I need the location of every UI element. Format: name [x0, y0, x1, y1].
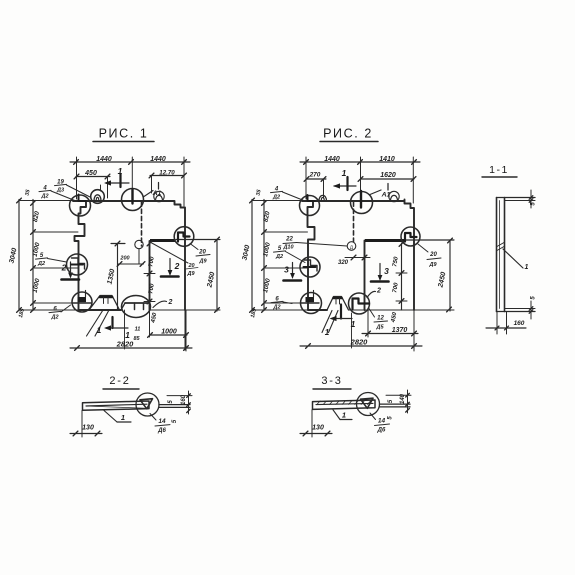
sec2-2 plate lines right	[159, 404, 190, 406]
sec3-3 label 14/Д6	[370, 413, 376, 420]
fig2 panel left edge with joggles	[308, 201, 315, 310]
svg-text:Д9: Д9	[428, 262, 437, 268]
fig1 dim 2450 vertical	[216, 240, 218, 312]
fig1 doorway left edge	[149, 241, 151, 310]
svg-text:130: 130	[82, 425, 94, 432]
svg-text:Д10: Д10	[282, 245, 293, 251]
fig2 callout circle bottom middle	[349, 293, 370, 314]
sec3-3 callout circle	[357, 393, 380, 416]
svg-text:2: 2	[168, 299, 173, 306]
fig2 callout circle doorway corner	[401, 227, 420, 246]
fig1 callout ellipse bottom middle	[122, 296, 151, 318]
fig2 callout circle left middle	[300, 257, 320, 277]
fig1 dim 200	[118, 263, 144, 265]
svg-text:1: 1	[525, 264, 529, 271]
fig1 leader 20/Д9 upper	[190, 244, 198, 250]
svg-text:160: 160	[181, 394, 187, 405]
svg-text:20: 20	[429, 252, 437, 258]
sec3-3 bar inner line	[316, 403, 373, 404]
svg-text:Д2: Д2	[37, 261, 45, 267]
svg-text:РИС. 2: РИС. 2	[323, 127, 373, 141]
fig1 doorway dim chain 700 700 450	[147, 241, 152, 246]
fig2 top dimension line 1440+1410	[300, 161, 420, 163]
sec2-2 triangle detail	[140, 399, 153, 409]
fig2 doorway left edge	[364, 241, 366, 311]
svg-text:Д2: Д2	[272, 194, 280, 200]
sec2-2 label 14/Д6	[150, 414, 156, 421]
fig2 callout circle bottom-left	[301, 293, 322, 314]
fig1 extension line sill left	[124, 310, 126, 349]
svg-text:Д2: Д2	[272, 304, 280, 310]
fig1 dim 1350 vertical	[117, 244, 119, 311]
fig2 leader 22/Д10	[297, 243, 348, 247]
fig2 dim 2820	[300, 345, 422, 347]
svg-text:450: 450	[84, 170, 97, 177]
sec1-1 break marks	[497, 243, 504, 247]
fig1 left tick connectors	[33, 231, 78, 233]
fig2 leader 20/Д9	[418, 244, 428, 252]
fig1 bottom trapezoid rib detail	[89, 296, 120, 311]
fig2 small loop right	[389, 191, 399, 201]
fig1 left inner dim chain	[32, 200, 34, 311]
svg-text:Д2: Д2	[40, 193, 48, 199]
fig2 panel bottom edge	[308, 309, 327, 311]
svg-text:1: 1	[97, 326, 102, 335]
svg-text:1440: 1440	[96, 156, 112, 163]
svg-text:1: 1	[125, 330, 130, 340]
svg-text:11: 11	[135, 327, 141, 333]
sec3-3 hatch	[317, 401, 320, 405]
sec1-1 dim 5 top	[530, 190, 532, 208]
sec2-2 bar outline	[83, 401, 150, 410]
sec1-1 vertical plate	[497, 198, 505, 312]
fig2 node circle with д	[347, 242, 356, 251]
svg-text:1: 1	[121, 413, 125, 422]
svg-text:85: 85	[133, 336, 140, 342]
fig1 label A1 with arrow	[144, 191, 153, 197]
fig1 callout circle bottom-left	[72, 292, 92, 312]
svg-text:320: 320	[338, 260, 349, 266]
fig2 callout circle top-left corner	[300, 196, 320, 216]
svg-text:22: 22	[285, 237, 293, 243]
sec1-1 dim 5 bottom	[530, 301, 532, 319]
sec1-1 leader 1	[503, 249, 523, 268]
svg-text:Д3: Д3	[56, 187, 64, 193]
fig1 dim 450	[76, 176, 110, 178]
fig2 label 12/Д5	[369, 309, 375, 318]
svg-text:Д2: Д2	[50, 314, 58, 320]
fig1 small loop right	[154, 191, 164, 201]
svg-text:2820: 2820	[350, 337, 369, 346]
svg-text:Д6: Д6	[377, 428, 386, 434]
fig2 left inner dim chain	[263, 200, 265, 311]
fig1 dim 1270	[150, 175, 184, 177]
fig2 dim 2450 vertical	[449, 240, 451, 311]
fig2 label A1 with arrow	[370, 190, 381, 195]
sec1-1 top flange	[497, 197, 536, 199]
sec2-2 bar inner line	[86, 404, 147, 406]
svg-text:1: 1	[351, 319, 356, 329]
svg-text:2: 2	[174, 261, 180, 271]
fig1 leader 20/Д9 lower	[150, 242, 188, 263]
svg-text:Д9: Д9	[198, 259, 207, 265]
svg-text:270: 270	[309, 172, 321, 179]
sec3-3 plate lines right	[380, 403, 411, 405]
svg-text:3-3: 3-3	[321, 375, 342, 387]
fig2 extension line lintel level	[405, 239, 454, 241]
svg-text:1: 1	[342, 411, 346, 420]
svg-text:1-1: 1-1	[489, 164, 509, 176]
fig1 callout circle doorway corner	[174, 227, 194, 247]
svg-text:Д2: Д2	[275, 254, 283, 260]
svg-text:РИС. 1: РИС. 1	[99, 127, 149, 141]
sec2-2 right dims	[167, 395, 192, 397]
fig1 panel outline	[73, 201, 185, 310]
svg-text:200: 200	[119, 256, 129, 262]
svg-text:3: 3	[384, 266, 389, 276]
sec3-3 bar outline	[313, 400, 376, 409]
fig1 extension line lintel level	[176, 239, 220, 241]
svg-text:3: 3	[284, 265, 289, 275]
sec2-2 leader 1	[104, 411, 117, 423]
fig1 leader 2 bottom right	[153, 301, 167, 307]
fig2 right edge extension down	[413, 310, 415, 351]
fig2 bottom trapezoid rib detail	[327, 297, 349, 311]
sec3-3 leader 1	[333, 410, 340, 420]
fig1 triangle leader bottom	[87, 310, 104, 336]
sec2-2 dim 130	[81, 411, 83, 438]
fig2 panel outline	[302, 200, 414, 311]
sec1-1 dim 160	[496, 312, 498, 334]
fig2 dim 270	[306, 178, 326, 180]
svg-text:2820: 2820	[116, 339, 135, 348]
fig1 callout circle top middle joint	[122, 189, 144, 211]
fig1 right edge extension down	[184, 310, 186, 350]
fig1 callout circle top-left corner	[70, 195, 91, 216]
fig1 callout circle lifting loop left	[91, 190, 105, 204]
fig2 extension lines top	[305, 157, 307, 199]
sec2-2 callout circle	[136, 393, 159, 416]
svg-text:14: 14	[158, 418, 166, 425]
svg-text:2: 2	[61, 263, 67, 273]
fig2 doorway dim chain 750 700 450	[401, 243, 403, 310]
svg-text:2: 2	[376, 288, 381, 295]
fig1 doorway lintel thick line	[150, 239, 175, 242]
svg-text:1440: 1440	[324, 156, 340, 163]
fig2 lifting loop left	[319, 195, 327, 201]
svg-text:Д6: Д6	[157, 428, 166, 434]
svg-text:1000: 1000	[161, 329, 177, 336]
fig1 dashed axis line	[141, 202, 143, 246]
sec1-1 bottom flange	[505, 308, 535, 310]
fig1 section marker 1 bottom	[111, 317, 113, 328]
fig2 dim 1370 bottom	[367, 310, 369, 337]
sec3-3 dim 130	[311, 410, 313, 437]
svg-text:1440: 1440	[150, 156, 166, 163]
svg-text:Д5: Д5	[375, 325, 384, 331]
fig2 left outer dim 3040	[251, 200, 253, 311]
fig1 panel left edge with joggles	[75, 201, 87, 310]
fig2 dim 320	[345, 257, 370, 259]
fig1 panel bottom edge	[79, 309, 122, 311]
svg-text:д: д	[350, 245, 353, 251]
sec3-3 triangle detail	[361, 398, 374, 408]
svg-text:1370: 1370	[392, 327, 408, 334]
svg-text:1620: 1620	[380, 172, 396, 179]
svg-text:12.70: 12.70	[159, 169, 175, 176]
fig2 left tick connectors	[264, 231, 308, 233]
fig2 doorway lintel thick line	[365, 239, 404, 242]
svg-text:2-2: 2-2	[109, 375, 130, 387]
fig2 leader 2 label	[367, 291, 376, 297]
fig1 extension lines top	[76, 157, 78, 199]
fig2 section marker 1 bottom	[340, 305, 342, 319]
fig1 top dimension line 1440+1440	[70, 161, 190, 163]
svg-text:130: 130	[312, 425, 324, 432]
svg-text:160: 160	[514, 320, 525, 327]
svg-text:1: 1	[325, 328, 330, 337]
fig1 callout circle left middle	[67, 254, 88, 275]
svg-text:Д9: Д9	[186, 271, 195, 277]
fig1 dim 1000 bottom	[150, 334, 188, 336]
fig1 raised sill detail inside ellipse	[125, 302, 150, 304]
fig1 small node circle	[135, 240, 143, 248]
fig1 left outer dim 3040	[18, 200, 20, 311]
fig2 dim 1620	[361, 178, 415, 180]
fig2 callout circle top middle joint	[351, 192, 373, 214]
fig2 dashed axis line	[353, 202, 355, 242]
fig1 dim 2820	[70, 347, 192, 349]
svg-text:12: 12	[377, 316, 384, 322]
svg-text:1410: 1410	[379, 156, 395, 163]
fig2 triangle leader bottom	[322, 311, 332, 333]
sec3-3 right dims	[386, 394, 411, 396]
fig2 extension line below ellipse	[351, 313, 353, 348]
svg-text:140: 140	[400, 393, 406, 404]
svg-text:1: 1	[342, 168, 347, 178]
svg-text:14: 14	[378, 418, 386, 425]
